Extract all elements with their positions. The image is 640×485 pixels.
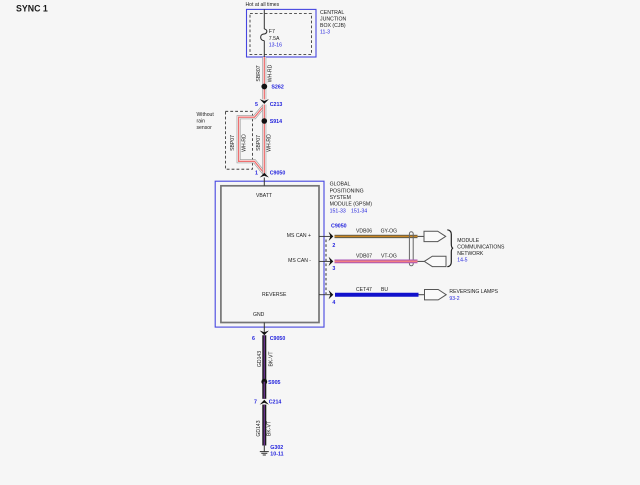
- svg-text:GND: GND: [253, 312, 265, 318]
- svg-text:93-2: 93-2: [449, 296, 459, 302]
- svg-text:WH-RD: WH-RD: [268, 64, 274, 82]
- svg-text:COMMUNICATIONS: COMMUNICATIONS: [457, 244, 505, 250]
- option label Without rain sensor: [197, 112, 215, 131]
- pin 2 lead: [319, 235, 331, 237]
- svg-text:G302: G302: [270, 445, 283, 451]
- svg-text:7: 7: [254, 400, 257, 406]
- svg-text:CENTRAL: CENTRAL: [320, 10, 344, 16]
- pin 2 arrow: [329, 232, 334, 241]
- svg-text:NETWORK: NETWORK: [457, 251, 484, 257]
- svg-text:rain: rain: [197, 119, 206, 125]
- svg-text:POSITIONING: POSITIONING: [330, 188, 364, 194]
- svg-text:C9050: C9050: [270, 336, 286, 342]
- svg-text:C213: C213: [270, 102, 283, 108]
- svg-text:MODULE (GPSM): MODULE (GPSM): [330, 202, 373, 208]
- pin 3 lead: [319, 260, 331, 262]
- svg-text:JUNCTION: JUNCTION: [320, 17, 346, 23]
- lead wire to network connector bottom: [418, 260, 426, 262]
- wire main SBP07 WH-RD C213 to C9050: [262, 105, 266, 175]
- svg-text:13-16: 13-16: [269, 42, 282, 48]
- connector C9050 dashed line: [325, 240, 327, 295]
- wire CET47 BU: [335, 293, 419, 297]
- svg-text:C214: C214: [269, 400, 282, 406]
- svg-text:GD143: GD143: [256, 420, 262, 436]
- svg-text:BK-VT: BK-VT: [268, 351, 274, 366]
- CJB label: [320, 10, 346, 35]
- svg-text:SYNC 1: SYNC 1: [16, 3, 48, 13]
- svg-text:CET47: CET47: [356, 287, 372, 293]
- svg-text:BOX (CJB): BOX (CJB): [320, 23, 346, 29]
- svg-text:VDB06: VDB06: [356, 229, 372, 235]
- svg-text:BU: BU: [381, 287, 388, 293]
- svg-text:Hot at all times: Hot at all times: [246, 2, 280, 8]
- svg-text:SBP07: SBP07: [256, 135, 262, 151]
- brace: [447, 230, 453, 267]
- svg-text:5: 5: [255, 102, 258, 108]
- svg-text:14-5: 14-5: [457, 257, 467, 263]
- svg-text:REVERSING LAMPS: REVERSING LAMPS: [449, 289, 498, 295]
- svg-text:REVERSE: REVERSE: [262, 292, 287, 298]
- network label: [457, 238, 505, 263]
- wire SBR07 WH-RD from CJB to C213: [262, 57, 266, 99]
- pin 3 arrow: [329, 257, 334, 266]
- svg-text:10-11: 10-11: [270, 452, 283, 458]
- svg-text:SBR07: SBR07: [256, 65, 262, 81]
- lead wire to reversing lamps connector: [419, 294, 426, 296]
- wire GD143 BK-VT lower: [262, 405, 266, 446]
- svg-text:SBP07: SBP07: [230, 135, 236, 151]
- svg-text:7.5A: 7.5A: [269, 36, 280, 42]
- wire GD143 BK-VT upper: [262, 335, 266, 381]
- wire VDB07 VT-OG: [335, 259, 418, 263]
- splice S914: [262, 118, 268, 124]
- connector C214 arrow: [260, 400, 269, 405]
- wire S905 to C214: [262, 382, 266, 399]
- wire pin1 entry: [263, 178, 265, 186]
- ground lead: [263, 446, 265, 452]
- central junction box CJB: [247, 9, 317, 57]
- wire VDB06 GY-OG: [335, 235, 418, 239]
- without rain sensor dashed option box: [225, 111, 252, 169]
- svg-text:Without: Without: [197, 112, 215, 118]
- ground G302 symbol: [260, 452, 269, 455]
- svg-text:4: 4: [332, 300, 335, 306]
- svg-text:C9050: C9050: [270, 171, 286, 177]
- svg-text:MS CAN +: MS CAN +: [287, 233, 311, 239]
- svg-text:2: 2: [332, 243, 335, 249]
- svg-text:VBATT: VBATT: [256, 193, 272, 199]
- svg-text:151-34: 151-34: [351, 208, 367, 214]
- pin 4 lead: [319, 294, 331, 296]
- splice S262: [261, 84, 267, 90]
- svg-text:F7: F7: [269, 29, 275, 35]
- connector module communications network top: [424, 231, 446, 241]
- svg-text:MODULE: MODULE: [457, 238, 479, 244]
- pin 4 arrow: [329, 290, 334, 299]
- svg-text:GD143: GD143: [257, 351, 263, 367]
- connector module communications network bottom: [424, 256, 446, 266]
- twisted pair symbol: [409, 232, 413, 266]
- svg-text:VDB07: VDB07: [356, 254, 372, 260]
- fuse F7 lead wire bottom: [263, 41, 265, 57]
- svg-text:GLOBAL: GLOBAL: [330, 182, 351, 188]
- svg-text:sensor: sensor: [197, 125, 213, 131]
- GPSM label: [330, 182, 373, 215]
- fuse F7 lead wire top: [263, 9, 265, 29]
- svg-text:11-3: 11-3: [320, 29, 330, 35]
- svg-text:GY-OG: GY-OG: [381, 229, 398, 235]
- lead wire to network connector top: [418, 235, 426, 237]
- svg-text:S914: S914: [270, 119, 282, 125]
- svg-text:BK-VT: BK-VT: [267, 421, 273, 436]
- svg-text:SYSTEM: SYSTEM: [330, 195, 351, 201]
- connector reversing lamps: [425, 290, 447, 300]
- wire pin6 exit: [263, 323, 265, 334]
- svg-text:S262: S262: [271, 84, 283, 90]
- connector C9050 pin1 arrow: [260, 173, 269, 178]
- svg-text:WH-RD: WH-RD: [241, 134, 247, 152]
- fuse F7: [261, 29, 267, 41]
- pin 6 arrow: [260, 331, 269, 336]
- svg-text:6: 6: [252, 336, 255, 342]
- svg-text:MS CAN -: MS CAN -: [288, 258, 311, 264]
- GPSM module inner box: [221, 186, 319, 323]
- wire bypass loop WH-RD without rain sensor: [239, 106, 265, 174]
- connector C213 arrow: [260, 99, 269, 104]
- svg-text:1: 1: [255, 171, 258, 177]
- svg-text:S905: S905: [268, 380, 280, 386]
- GPSM module outer box: [215, 181, 324, 327]
- svg-text:C9050: C9050: [331, 223, 347, 229]
- splice S905: [261, 379, 267, 385]
- svg-text:151-33: 151-33: [330, 208, 346, 214]
- svg-text:3: 3: [332, 266, 335, 272]
- svg-text:WH-RD: WH-RD: [266, 134, 272, 152]
- fuse value label F7 7.5A 13-16: [269, 29, 282, 48]
- svg-text:VT-OG: VT-OG: [381, 254, 397, 260]
